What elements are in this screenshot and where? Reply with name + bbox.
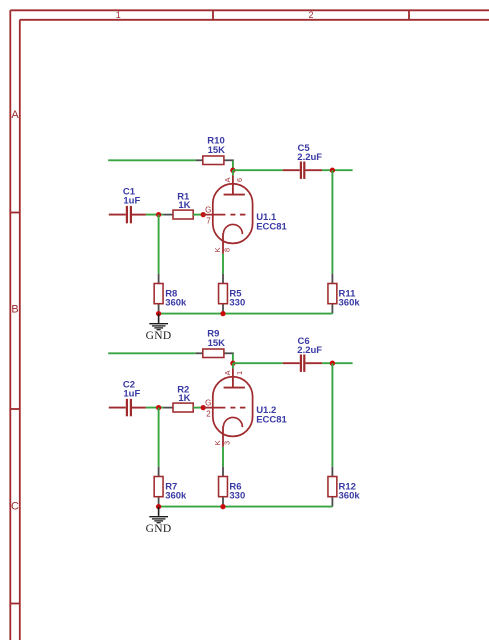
node anode junction dot (230, 361, 235, 366)
svg-text:K: K (213, 440, 222, 445)
svg-text:G: G (205, 205, 211, 214)
wire grid node to grid-leak resistor (158, 408, 160, 467)
svg-text:360k: 360k (339, 298, 361, 309)
resistor R1 (163, 192, 193, 219)
svg-text:GND: GND (146, 330, 172, 342)
resistor R11 (328, 274, 360, 314)
capacitor C1 (109, 186, 146, 223)
svg-text:7: 7 (206, 216, 211, 225)
node grid pin dot (201, 212, 206, 217)
svg-text:ECC81: ECC81 (256, 414, 287, 425)
wire plate supply rail N2 (108, 352, 196, 354)
node grid pin dot (201, 405, 206, 410)
svg-text:B: B (11, 304, 18, 316)
ground (146, 314, 172, 343)
svg-text:GND: GND (146, 523, 172, 535)
svg-text:1K: 1K (178, 393, 190, 404)
svg-text:A: A (11, 109, 19, 121)
svg-text:330: 330 (229, 298, 245, 309)
wire grid stopper to grid pin (193, 214, 203, 216)
svg-text:8: 8 (223, 248, 232, 252)
wire cathode to cathode resistor (222, 447, 224, 467)
svg-text:A: A (223, 177, 232, 182)
wire bottom rail (159, 313, 333, 315)
op-amp (triode tube) U1.2 (203, 363, 287, 447)
wire plate supply rail N1 (108, 159, 196, 161)
svg-text:G: G (205, 398, 211, 407)
svg-text:3: 3 (223, 441, 232, 445)
node output junction dot (330, 168, 335, 173)
node cathode resistor bottom dot (220, 311, 225, 316)
svg-text:2: 2 (308, 10, 313, 20)
node grid-leak junction dot (156, 405, 161, 410)
capacitor C5 (283, 143, 322, 179)
wire coupling cap output (322, 169, 353, 171)
svg-text:2.2uF: 2.2uF (297, 152, 322, 163)
svg-text:1: 1 (116, 10, 121, 20)
resistor R2 (163, 385, 193, 412)
wire input cap to grid node (146, 214, 164, 216)
node grid-leak junction dot (156, 212, 161, 217)
ground (146, 507, 172, 536)
op-amp (triode tube) U1.1 (203, 170, 287, 254)
capacitor C6 (283, 336, 322, 372)
wire anode to coupling cap (233, 169, 283, 171)
resistor R8 (154, 274, 187, 314)
svg-text:330: 330 (229, 491, 245, 502)
resistor R9 (196, 329, 234, 358)
capacitor C2 (109, 379, 146, 416)
wire cathode to cathode resistor (222, 254, 224, 274)
node gnd junction dot (156, 311, 161, 316)
svg-text:1uF: 1uF (123, 388, 140, 399)
svg-text:1uF: 1uF (123, 195, 140, 206)
resistor R5 (219, 274, 246, 314)
wire input cap to grid node (146, 407, 164, 409)
svg-text:360k: 360k (339, 491, 361, 502)
resistor R10 (196, 136, 234, 165)
svg-text:2: 2 (206, 409, 211, 418)
svg-text:6: 6 (235, 178, 244, 182)
node gnd junction dot (156, 504, 161, 509)
node anode junction dot (230, 168, 235, 173)
wire output drop to grid-leak resistor (331, 170, 333, 274)
svg-text:15K: 15K (208, 338, 226, 349)
wire anode to coupling cap (233, 362, 283, 364)
wire plate elbow (232, 354, 234, 364)
svg-text:15K: 15K (208, 145, 226, 156)
resistor R6 (219, 467, 246, 507)
node output junction dot (330, 361, 335, 366)
svg-text:2.2uF: 2.2uF (297, 345, 322, 356)
wire grid stopper to grid pin (193, 407, 203, 409)
svg-text:C: C (11, 501, 19, 513)
node cathode resistor bottom dot (220, 504, 225, 509)
resistor R7 (154, 467, 187, 507)
wire plate elbow (232, 161, 234, 171)
svg-text:K: K (213, 247, 222, 252)
wire output drop to grid-leak resistor (331, 363, 333, 467)
resistor R12 (328, 467, 360, 507)
svg-text:1K: 1K (178, 200, 190, 211)
wire coupling cap output (322, 362, 353, 364)
svg-text:A: A (223, 370, 232, 375)
svg-text:360k: 360k (165, 491, 187, 502)
wire bottom rail (159, 506, 333, 508)
svg-text:360k: 360k (165, 298, 187, 309)
svg-text:ECC81: ECC81 (256, 221, 287, 232)
svg-text:1: 1 (235, 371, 244, 375)
wire grid node to grid-leak resistor (158, 215, 160, 274)
